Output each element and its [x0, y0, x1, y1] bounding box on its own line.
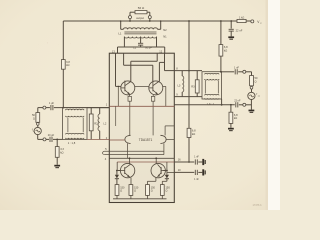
wire input top — [38, 107, 43, 109]
wire band right to edge — [166, 138, 174, 140]
svg-text:.: . — [97, 41, 98, 45]
wire pin6 right — [165, 125, 174, 127]
resistor 6.8k left feed — [61, 60, 65, 70]
wire band to slot left — [127, 143, 129, 158]
resistor 3.3k — [56, 139, 58, 146]
wire top supply rail — [63, 20, 237, 22]
resistor 50 ohm right — [250, 76, 254, 86]
wire tank top pin 8 — [174, 70, 202, 72]
wire source down — [250, 100, 252, 110]
wire L1 drops from rail — [120, 21, 122, 29]
resistor 6.8k mid right — [187, 128, 191, 137]
wire to 50 ohm — [246, 71, 252, 73]
resistor 150 ohm c — [146, 185, 150, 196]
wire Q2 collector up — [158, 62, 160, 81]
wire 22nF path — [174, 104, 235, 106]
resistor 56 ohm load — [135, 11, 147, 14]
terminal output right — [148, 16, 151, 19]
svg-text:N2: N2 — [163, 28, 167, 32]
wire pin2 into band — [109, 139, 125, 141]
resistor 150 ohm d — [160, 185, 164, 196]
svg-text:.: . — [84, 42, 85, 46]
svg-text:Ω: Ω — [166, 189, 168, 193]
svg-text:1 nF: 1 nF — [194, 178, 199, 181]
resistor 150 ohm b — [129, 185, 133, 196]
resistor 50 ohm source — [37, 108, 39, 113]
resistor 150 ohm a — [115, 185, 119, 196]
svg-text:17476 b: 17476 b — [252, 204, 262, 207]
svg-text:1 nF: 1 nF — [194, 155, 199, 158]
resistor 6.8k lower right — [230, 105, 232, 112]
wire input bottom to IC — [87, 138, 109, 140]
inductor L1 winding N1 — [124, 37, 156, 38]
source f1 — [34, 127, 41, 134]
svg-text:1,9 : 1: 1,9 : 1 — [207, 102, 215, 106]
capacitor 1 nF pin10 — [167, 171, 174, 173]
capacitor 22 nF top — [230, 21, 232, 29]
svg-text:kΩ: kΩ — [234, 116, 237, 120]
svg-text:kΩ: kΩ — [224, 49, 227, 53]
wire pin13 to Q1 left lead — [115, 53, 117, 86]
wire bottom bus — [113, 198, 167, 200]
svg-text:os: os — [258, 96, 260, 98]
wire terminal to source ground — [246, 104, 252, 106]
diode D2 — [166, 162, 168, 175]
terminal V2 — [251, 20, 254, 23]
wire Q3 collector up — [129, 158, 131, 163]
wire N1 ends down — [123, 37, 125, 47]
terminal input top — [43, 106, 46, 109]
capacitor 20 uF — [46, 138, 49, 140]
wire Q1-Q2 link — [135, 85, 149, 87]
capacitor 22 nF right — [235, 102, 237, 107]
capacitor 1 nF right — [222, 71, 235, 73]
wire tank bottom pin 9 — [174, 96, 202, 98]
wire input top to IC segment — [87, 107, 109, 109]
wire tank bottom to pins 13 12 — [118, 46, 165, 48]
terminal right top — [243, 70, 246, 73]
svg-text:Ω: Ω — [255, 79, 257, 83]
wire pin12 to pin8 — [164, 53, 166, 70]
svg-text:1 kΩ: 1 kΩ — [239, 16, 244, 19]
svg-text:kΩ: kΩ — [60, 151, 63, 155]
svg-text:56 Ω: 56 Ω — [138, 6, 145, 10]
svg-text:1 nF: 1 nF — [234, 66, 239, 69]
diode D1 — [116, 171, 118, 175]
svg-text:kΩ: kΩ — [66, 63, 69, 67]
terminal right bottom — [243, 103, 246, 106]
transistor Q3 — [120, 163, 134, 177]
source f os — [248, 92, 255, 99]
svg-text:N1: N1 — [163, 35, 167, 39]
terminal small right — [251, 85, 253, 88]
label band TDA1571 right brace — [160, 135, 166, 143]
paper background — [0, 0, 280, 210]
wire N1 left into Q2 base — [123, 53, 125, 65]
svg-text:kΩ: kΩ — [192, 132, 195, 136]
capacitor 1 uF — [46, 107, 50, 109]
svg-text:1 : 1,8: 1 : 1,8 — [68, 141, 76, 145]
svg-text:22 nF: 22 nF — [234, 99, 241, 102]
wire Q4 collector up — [155, 158, 157, 164]
wire Q3 emitter down — [130, 178, 132, 185]
resistor internal Q2 emitter — [152, 95, 154, 97]
svg-text:.: . — [38, 42, 39, 46]
svg-text:Ω: Ω — [120, 189, 122, 193]
wire Q1 left down — [117, 86, 119, 106]
ground right source — [249, 110, 255, 112]
resistor 6.8k top right — [220, 21, 222, 45]
wire band to slot right — [163, 143, 165, 154]
transformer 1.9:1 can — [202, 72, 222, 99]
svg-text:C1: C1 — [133, 46, 137, 50]
wire Q4 emitter down — [155, 177, 157, 181]
ground lower right — [228, 128, 234, 130]
core L1 — [124, 31, 156, 33]
ground 3.3k — [54, 165, 60, 167]
resistor R2 — [90, 108, 92, 114]
wire bus pin1 horizontal — [109, 105, 174, 107]
wire vertical from rail right — [188, 21, 190, 128]
wire D2 jog to resistor — [162, 180, 167, 182]
print bleed ghosts — [38, 41, 98, 46]
transformer 1:1.8 can — [63, 108, 88, 140]
terminal input bottom — [43, 138, 46, 141]
wire output loop — [130, 11, 135, 13]
svg-text:20 µF: 20 µF — [48, 134, 55, 137]
svg-text:1 µF: 1 µF — [49, 102, 55, 105]
ground pin10 — [202, 169, 204, 175]
wire Q1 collector cross — [130, 61, 132, 81]
wire D1 base link — [117, 170, 121, 172]
wire collector bus — [109, 157, 174, 159]
capacitor C1 80 pF — [140, 37, 142, 43]
wire left feed vertical — [62, 21, 64, 60]
inductor L1 winding N2 — [121, 28, 124, 30]
ground pin16 — [202, 159, 204, 165]
wire stub mid left — [115, 106, 117, 126]
svg-text:output: output — [136, 16, 144, 20]
svg-text:L1: L1 — [118, 32, 122, 36]
resistor R3 — [196, 71, 198, 80]
svg-text:Ω: Ω — [33, 116, 35, 120]
svg-text:.: . — [58, 42, 59, 46]
wire pin16 bus — [117, 161, 174, 163]
svg-text:R3: R3 — [191, 85, 195, 89]
label band TDA1571 left brace — [125, 135, 131, 143]
svg-text:80 pF: 80 pF — [145, 46, 152, 50]
terminal small left — [37, 121, 39, 123]
svg-text:TDA1571: TDA1571 — [139, 138, 153, 142]
page right edge — [268, 0, 280, 210]
transistor Q1 — [121, 81, 135, 95]
wire source bottom — [37, 135, 39, 140]
wire D2 base link — [163, 170, 167, 172]
svg-text:22 nF: 22 nF — [236, 28, 243, 32]
wire Q2 right down — [163, 85, 166, 87]
transistor Q4 mirrored — [151, 163, 165, 177]
resistor internal Q1 emitter — [129, 95, 131, 97]
inductor L3 — [181, 71, 183, 76]
resistor 1 kOhm output — [237, 19, 246, 22]
wire pins 5-4 loop — [105, 150, 164, 152]
wire output stubs to rail — [129, 19, 131, 21]
svg-text:Ω: Ω — [134, 189, 136, 193]
svg-text:-: - — [70, 41, 71, 45]
op-amp U1 IC TDA1571 box — [109, 53, 174, 202]
ground top right — [228, 36, 234, 38]
transistor Q2 — [149, 81, 163, 95]
inductor L2 — [99, 108, 101, 114]
terminal output left — [129, 16, 132, 19]
svg-text:R2: R2 — [94, 121, 98, 125]
capacitor 1 nF pin16 — [174, 161, 194, 163]
svg-text:Ω: Ω — [151, 189, 153, 193]
